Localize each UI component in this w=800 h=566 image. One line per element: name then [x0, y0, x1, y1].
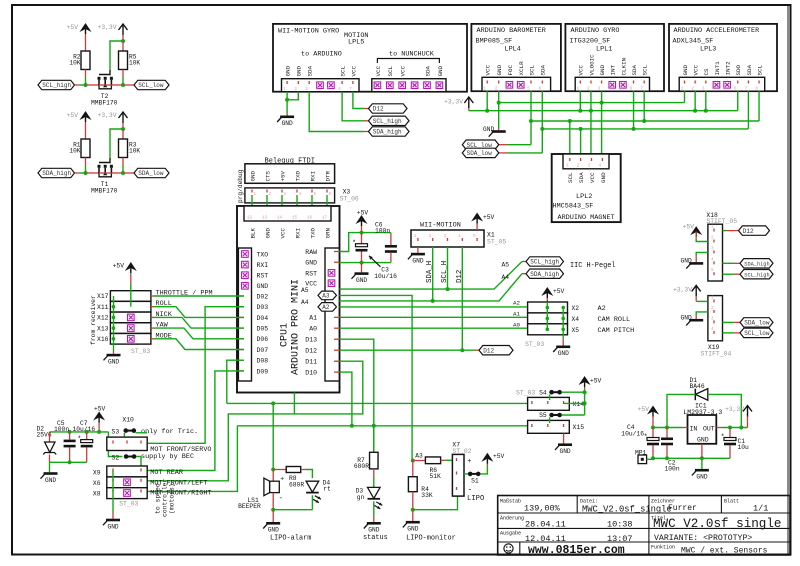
wire LPL5 GND pins to ground: [287, 92, 298, 100]
ground (X18): [681, 258, 704, 269]
wire +5V to X11 pin2: [130, 273, 132, 284]
svg-text:A5: A5: [501, 262, 509, 269]
wire D13 to status resistor: [339, 339, 374, 452]
node RAW junction: [360, 231, 364, 235]
node receiver gnd junction: [112, 316, 116, 320]
svg-text:28.04.11: 28.04.11: [525, 519, 566, 529]
svg-text:D10: D10: [305, 370, 317, 377]
svg-text:BMP085_SF: BMP085_SF: [476, 38, 513, 46]
svg-text:S1: S1: [471, 477, 479, 484]
LPL2 pin SCL: [569, 158, 571, 161]
svg-text:SCL: SCL: [340, 65, 347, 76]
node IN rail junctions: [651, 426, 655, 430]
wire LPL2 SCL up to SCL rail: [569, 121, 571, 154]
wire 3.3V to R5: [122, 41, 124, 51]
wire ROLL to D04: [151, 306, 154, 308]
svg-text:STIFT_04: STIFT_04: [701, 350, 732, 357]
wire L3 (to X15 / MOT FRONT/RIGHT): [147, 426, 237, 492]
wire LPL5 SDA to SDA_high flag: [309, 92, 364, 132]
wire A4 row: [339, 274, 522, 301]
node junction right: [111, 172, 123, 174]
svg-text:15: 15: [292, 217, 298, 221]
LED D3: [368, 487, 381, 498]
net flag D12 (X18): [739, 226, 770, 235]
svg-text:IN: IN: [690, 425, 698, 432]
wire ITG VLOGIC down to LPL2 VCC: [590, 91, 592, 154]
wire X18 pin3 to ground: [696, 252, 708, 256]
wire NICK to D05: [151, 316, 154, 318]
ground (status): [364, 522, 381, 534]
svg-text:INT1: INT1: [714, 61, 721, 76]
wire ITG SDA down: [633, 91, 635, 129]
status LED group: [354, 426, 388, 542]
module LPL3 outline: [669, 24, 777, 91]
LPL4 pin box: [482, 77, 551, 91]
ground (sensor rail): [483, 126, 506, 137]
svg-text:ST_05: ST_05: [487, 239, 506, 246]
module LPL2 outline: [552, 154, 621, 222]
node LPL2 SCL junction: [568, 119, 572, 123]
LPL1 pin box: [575, 77, 649, 91]
wire +3,3V down: [122, 123, 124, 129]
svg-text:IIC H-Pegel: IIC H-Pegel: [570, 262, 616, 270]
svg-text:SCL_high: SCL_high: [530, 259, 559, 266]
svg-text:(motors): (motors): [169, 483, 176, 514]
connector X5 outline: [528, 324, 568, 335]
wire S1 to +5V: [480, 466, 487, 474]
module LPL1 outline: [565, 24, 664, 91]
svg-text:D12: D12: [483, 347, 494, 354]
level shifter SDA group: [38, 111, 169, 195]
receiver connector group (X17 X11 X12 X13 X16): [90, 262, 244, 365]
svg-text:TXO: TXO: [294, 170, 301, 181]
svg-text:SCL_high: SCL_high: [744, 272, 769, 278]
connector X12 outline: [110, 312, 150, 323]
bracket over nunchuck pins: [377, 59, 439, 64]
CPU1 left pin D04: [238, 316, 244, 318]
svg-text:10u/16: 10u/16: [621, 430, 644, 437]
CPU1 left pin RXI: [242, 261, 249, 268]
wire X18 pin1 to D12 flag: [723, 230, 727, 232]
svg-text:SDA: SDA: [424, 65, 431, 76]
power +5V arrow (cam): [541, 287, 553, 296]
connector X9 outline: [107, 466, 147, 477]
svg-text:Änderung: Änderung: [500, 515, 524, 522]
wire BMP VCC down: [486, 91, 488, 111]
node C5 junction: [68, 430, 72, 434]
svg-text:Funktion: Funktion: [651, 545, 675, 551]
node 3.3V tap junction: [121, 39, 125, 43]
wire supply bottom rail: [50, 461, 87, 463]
svg-text:to speed-: to speed-: [155, 479, 162, 514]
svg-text:A2: A2: [322, 304, 330, 311]
wire X14 pin3 to +5V column: [564, 402, 585, 404]
wire R3 to node: [122, 158, 124, 166]
svg-text:+: +: [280, 476, 284, 483]
svg-text:supply by BEC: supply by BEC: [141, 453, 194, 461]
LPL5 pin -: [328, 82, 335, 89]
svg-text:GND: GND: [249, 170, 256, 181]
net flag SCL_high: [38, 80, 75, 89]
svg-text:A5: A5: [301, 287, 309, 294]
svg-text:controller: controller: [162, 478, 169, 517]
connector X19 group: [673, 285, 773, 357]
wire gate feed from +3,3V: [110, 41, 123, 70]
power +5V arrow (X18): [690, 226, 702, 235]
svg-text:A3: A3: [322, 293, 330, 300]
X18 pin 5: [713, 272, 715, 275]
wire BMP GND to ground symbol: [498, 103, 500, 127]
svg-text:*: *: [77, 436, 81, 444]
power +5V arrow (S1): [481, 453, 493, 462]
svg-text:A3: A3: [415, 452, 423, 459]
wire X1 pin1 to ground: [417, 247, 419, 253]
svg-text:SDA_high: SDA_high: [530, 271, 559, 278]
power +3,3V arrow (regulator): [743, 406, 752, 417]
svg-text:SCL: SCL: [387, 65, 394, 76]
svg-text:INT: INT: [610, 64, 617, 75]
svg-text:X1: X1: [487, 232, 495, 239]
LPL2 pin SDA: [580, 158, 582, 161]
module LPL5 outline: [273, 24, 467, 92]
svg-text:*: *: [352, 240, 356, 248]
X7 pins: [456, 458, 458, 461]
svg-text:D05: D05: [257, 326, 269, 333]
X3 pin 5: [311, 190, 313, 193]
capacitor C6: [385, 245, 397, 248]
svg-text:SCL: SCL: [567, 172, 574, 183]
wire to ground (supply): [49, 462, 51, 472]
CPU1 left pin D03: [238, 306, 244, 308]
wire X1 SCL_H down: [447, 247, 449, 289]
node A5 SCL_H junction: [446, 287, 450, 291]
svg-text:GND: GND: [696, 474, 707, 481]
wire L1 (D08 to X14): [227, 402, 531, 404]
svg-text:S5: S5: [539, 412, 547, 419]
svg-text:GND: GND: [285, 65, 292, 76]
X1 pin 2: [432, 238, 434, 241]
wire LPL5 VCC to D12 flag: [353, 92, 364, 109]
capacitor C1: [729, 428, 731, 438]
svg-text:DTR: DTR: [324, 170, 331, 181]
svg-text:S3: S3: [112, 429, 120, 436]
svg-text:GND: GND: [600, 172, 607, 183]
svg-text:+5V: +5V: [493, 453, 505, 460]
svg-text:SCL_low: SCL_low: [744, 330, 770, 337]
power +3,3V arrow (PS2): [119, 24, 128, 35]
svg-text:GND: GND: [305, 260, 317, 267]
svg-text:X15: X15: [573, 424, 585, 431]
svg-text:S2: S2: [112, 455, 120, 462]
svg-text:+5V: +5V: [638, 406, 650, 413]
svg-text:LPL5: LPL5: [348, 39, 364, 47]
wire D4 to bottom rail: [311, 495, 313, 510]
node receiver gnd junction: [112, 337, 116, 341]
svg-text:LPL4: LPL4: [505, 46, 521, 54]
connector X6 outline: [107, 477, 147, 488]
svg-text:SDA_low: SDA_low: [138, 170, 164, 177]
module LPL4 BMP085 group: [471, 24, 561, 92]
net flag SDA_low: [123, 172, 134, 174]
wire S3 left to X10 pin2: [123, 433, 125, 441]
svg-text:10K: 10K: [129, 148, 140, 155]
svg-text:CLKIN: CLKIN: [620, 57, 627, 75]
CPU1 left pin box: [238, 248, 251, 381]
svg-text:from receiver: from receiver: [90, 295, 97, 345]
svg-text:10u/16: 10u/16: [374, 273, 397, 280]
svg-text:D08: D08: [257, 358, 269, 365]
LPL5 nunchuck pin -: [411, 82, 418, 89]
svg-text:to ARDUINO: to ARDUINO: [301, 51, 342, 59]
wire D10 down to L3: [339, 372, 352, 426]
svg-text:GND: GND: [599, 64, 606, 75]
wire beeper bottom rail: [273, 509, 312, 511]
wire +5V to R1: [85, 122, 87, 139]
svg-text:+5V: +5V: [279, 170, 286, 181]
node S3 tap: [107, 431, 109, 433]
wire R6 to X7 pin1: [441, 459, 446, 461]
svg-text:GND: GND: [108, 358, 119, 365]
svg-text:+5V: +5V: [483, 214, 495, 221]
svg-text:X14: X14: [573, 401, 585, 408]
svg-text:RXI: RXI: [309, 171, 316, 182]
svg-text:LPL3: LPL3: [700, 46, 716, 54]
wire SCL rail: [531, 120, 759, 122]
title block logo: [504, 544, 513, 553]
X18 pin 3: [713, 250, 715, 253]
svg-text:A1: A1: [513, 310, 520, 317]
X19 pin 3: [713, 320, 715, 323]
CPU1 right pin D12: [334, 349, 339, 351]
svg-text:A0: A0: [309, 326, 317, 333]
svg-text:MWC_V2.0sf_single: MWC_V2.0sf_single: [653, 517, 781, 531]
X19 pin 4: [713, 331, 715, 334]
connector X2/X4/X5 cam group: [513, 287, 634, 357]
svg-text:SDA: SDA: [631, 64, 638, 75]
svg-text:680R: 680R: [354, 463, 369, 470]
wire X15 pin3 to ground: [563, 433, 565, 443]
svg-text:GND: GND: [483, 126, 494, 133]
node status-R7 junction on L3: [372, 424, 376, 428]
node cam +5V junction: [546, 306, 550, 310]
FTDI header group: [237, 157, 359, 216]
X1 pin 4: [461, 238, 463, 241]
node receiver gnd junction: [112, 305, 116, 309]
svg-text:CAM PITCH: CAM PITCH: [598, 327, 635, 335]
CPU1 left pin D02: [238, 295, 244, 297]
svg-text:GND: GND: [108, 523, 119, 530]
node ITG SCL junction: [642, 119, 646, 123]
svg-text:+5V: +5V: [357, 210, 369, 217]
wire X3 pin 3 to CPU: [281, 195, 283, 217]
node D12/X1 junction: [460, 348, 464, 352]
connector X15 outline: [528, 420, 570, 433]
X9 stack pins: [112, 468, 114, 471]
svg-text:OUT: OUT: [703, 425, 715, 432]
wire YAW to D06: [151, 327, 154, 329]
ground (X15): [555, 443, 572, 455]
svg-text:LIPO-alarm: LIPO-alarm: [270, 534, 311, 542]
svg-text:X8: X8: [93, 490, 101, 497]
svg-text:+5V: +5V: [553, 288, 565, 295]
wire X18 pin2 to +5V: [695, 232, 697, 239]
svg-text:X5: X5: [572, 327, 580, 334]
svg-text:X11: X11: [97, 304, 109, 311]
transistor T1: [98, 158, 113, 177]
X6 nc pin X mark: [124, 479, 131, 486]
svg-text:17: 17: [322, 217, 328, 221]
node cam gnd junction: [561, 317, 565, 321]
ground (monitor): [403, 521, 420, 533]
LPL2 pin VCC: [591, 158, 593, 161]
connector X1 outline: [411, 230, 484, 247]
wire A5 row: [339, 262, 522, 290]
svg-text:GND: GND: [496, 64, 503, 75]
wire D03 to MOT FRONT/SERVO: [147, 307, 244, 444]
X3 pin 6: [326, 190, 328, 193]
node L1 beeper junction: [271, 401, 275, 405]
svg-text:A4: A4: [501, 274, 509, 281]
svg-text:VCC: VCC: [589, 172, 596, 183]
svg-text:ARDUINO PRO MINI: ARDUINO PRO MINI: [291, 279, 302, 375]
connector X16 outline: [110, 334, 150, 345]
X3 pin 1: [251, 190, 253, 193]
svg-text:*: *: [644, 434, 648, 442]
node junction right: [111, 84, 123, 86]
svg-text:MMBF170: MMBF170: [91, 188, 118, 195]
wire X19 pin4 to SCL_low flag: [723, 332, 735, 334]
X15 pins: [531, 424, 533, 427]
CPU1 left pin D09: [238, 370, 244, 372]
node bottom rail junctions: [68, 460, 72, 464]
wire S5 to X15 pin2: [549, 417, 551, 423]
wire ADXL CS down: [705, 91, 707, 111]
svg-text:GND: GND: [412, 257, 423, 264]
svg-text:+3,3V: +3,3V: [673, 287, 692, 294]
X1 pin 3: [447, 238, 449, 241]
svg-text:status: status: [363, 534, 388, 542]
CPU1 left pin RST: [242, 272, 249, 279]
power entry group: [37, 406, 212, 531]
wire D09 to MOT REAR: [147, 371, 244, 471]
svg-text:+3,3V: +3,3V: [98, 112, 117, 119]
svg-text:MOT REAR: MOT REAR: [150, 469, 183, 477]
CPU1 right pin GND: [334, 261, 339, 263]
node X14 pin3 junction: [583, 401, 587, 405]
svg-text:X10: X10: [122, 417, 134, 424]
wire +5V to rail: [98, 423, 100, 432]
X1 pin 1: [417, 238, 419, 241]
svg-text:X17: X17: [97, 293, 109, 300]
svg-text:Maßstab: Maßstab: [500, 498, 521, 504]
wire X19 pin2 to ground: [696, 312, 708, 315]
ground (regulator): [692, 469, 709, 481]
svg-text:D02: D02: [257, 293, 269, 300]
wire S4 to +5V: [562, 391, 585, 393]
label C3 with arrow: [369, 256, 381, 267]
wire X19 pin3 to SDA_low flag: [723, 321, 735, 323]
wire LS1 to bottom rail: [272, 493, 274, 510]
svg-text:10K: 10K: [69, 148, 80, 155]
svg-text:GND: GND: [681, 315, 692, 322]
svg-text:HMC5843_SF: HMC5843_SF: [553, 203, 594, 211]
svg-text:+5V: +5V: [94, 406, 106, 413]
svg-text:GND: GND: [257, 283, 269, 290]
svg-text:ARDUINO GYRO: ARDUINO GYRO: [571, 27, 620, 35]
CPU1 left pin D07: [238, 349, 244, 351]
ground (cam): [553, 346, 570, 358]
svg-text:D12: D12: [743, 228, 754, 235]
svg-text:FOC: FOC: [507, 64, 514, 75]
svg-text:LPL1: LPL1: [596, 46, 612, 54]
svg-text:ADXL345_SF: ADXL345_SF: [673, 38, 714, 46]
node ADXL CS junction: [704, 109, 708, 113]
svg-text:to NUNCHUCK: to NUNCHUCK: [389, 51, 435, 59]
wire D1 right leg: [708, 394, 742, 427]
svg-text:MWC / ext. Sensors: MWC / ext. Sensors: [681, 547, 768, 556]
node D10 L3 junction: [350, 424, 354, 428]
svg-text:SCL: SCL: [528, 64, 535, 75]
X1 pin 5: [476, 238, 478, 241]
node C7 junction: [85, 430, 89, 434]
net flag SCL_high (X18): [740, 270, 773, 279]
svg-text:VLOGIC: VLOGIC: [588, 54, 595, 76]
X18 pin 4: [713, 261, 715, 264]
X3 pin 2: [266, 190, 268, 193]
speaker LS1: [272, 470, 274, 482]
svg-text:LIPO-monitor: LIPO-monitor: [406, 534, 456, 542]
connector X17 outline: [110, 291, 150, 302]
svg-text:WII-MOTION GYRO: WII-MOTION GYRO: [278, 28, 339, 36]
power +5V arrow (regulator): [647, 406, 659, 415]
svg-text:XCLR: XCLR: [518, 61, 525, 76]
node beeper top junction: [271, 468, 275, 472]
svg-text:X13: X13: [97, 325, 109, 332]
X18 pin 2: [713, 240, 715, 243]
net flag SDA_high (X18): [740, 259, 773, 268]
power +5V arrow (CPU RAW): [339, 210, 397, 284]
wire to ground (beeper): [272, 510, 274, 522]
connector X4 outline: [528, 313, 568, 324]
node A3 junction: [411, 459, 415, 463]
svg-text:RXI: RXI: [257, 262, 269, 269]
svg-text:SCL_high: SCL_high: [42, 82, 71, 89]
svg-text:ST_03: ST_03: [119, 501, 138, 508]
svg-text:51K: 51K: [430, 473, 442, 480]
power +5V arrow (X1): [471, 213, 483, 222]
svg-text:GRN: GRN: [324, 227, 331, 238]
wire ADXL SDA down: [747, 91, 749, 129]
wire beeper feed: [272, 403, 274, 469]
svg-text:SCL_H: SCL_H: [441, 261, 449, 283]
svg-text:D12: D12: [456, 270, 464, 283]
svg-text:12.04.11: 12.04.11: [525, 534, 566, 544]
svg-text:16: 16: [307, 217, 313, 221]
wire X18 pin5 to SCL_high flag: [723, 273, 735, 275]
wire ADXL VCC down: [694, 91, 696, 111]
wire C3 C6 bottom to CPU GND: [361, 252, 363, 263]
svg-text:100n: 100n: [375, 227, 390, 234]
wire X18 pin4 to SDA_high flag: [723, 262, 735, 264]
wire regulator bottom rail: [647, 458, 653, 460]
svg-text:+5V: +5V: [683, 224, 695, 231]
connector X14/X15 group: [516, 376, 602, 455]
wire X9 gnd column: [112, 470, 114, 512]
wire to ground (monitor): [412, 510, 414, 521]
connector X11 outline: [110, 301, 150, 312]
net flag SDA_low (sensor): [462, 148, 499, 157]
beeper LIPO-alarm group: [238, 403, 331, 542]
